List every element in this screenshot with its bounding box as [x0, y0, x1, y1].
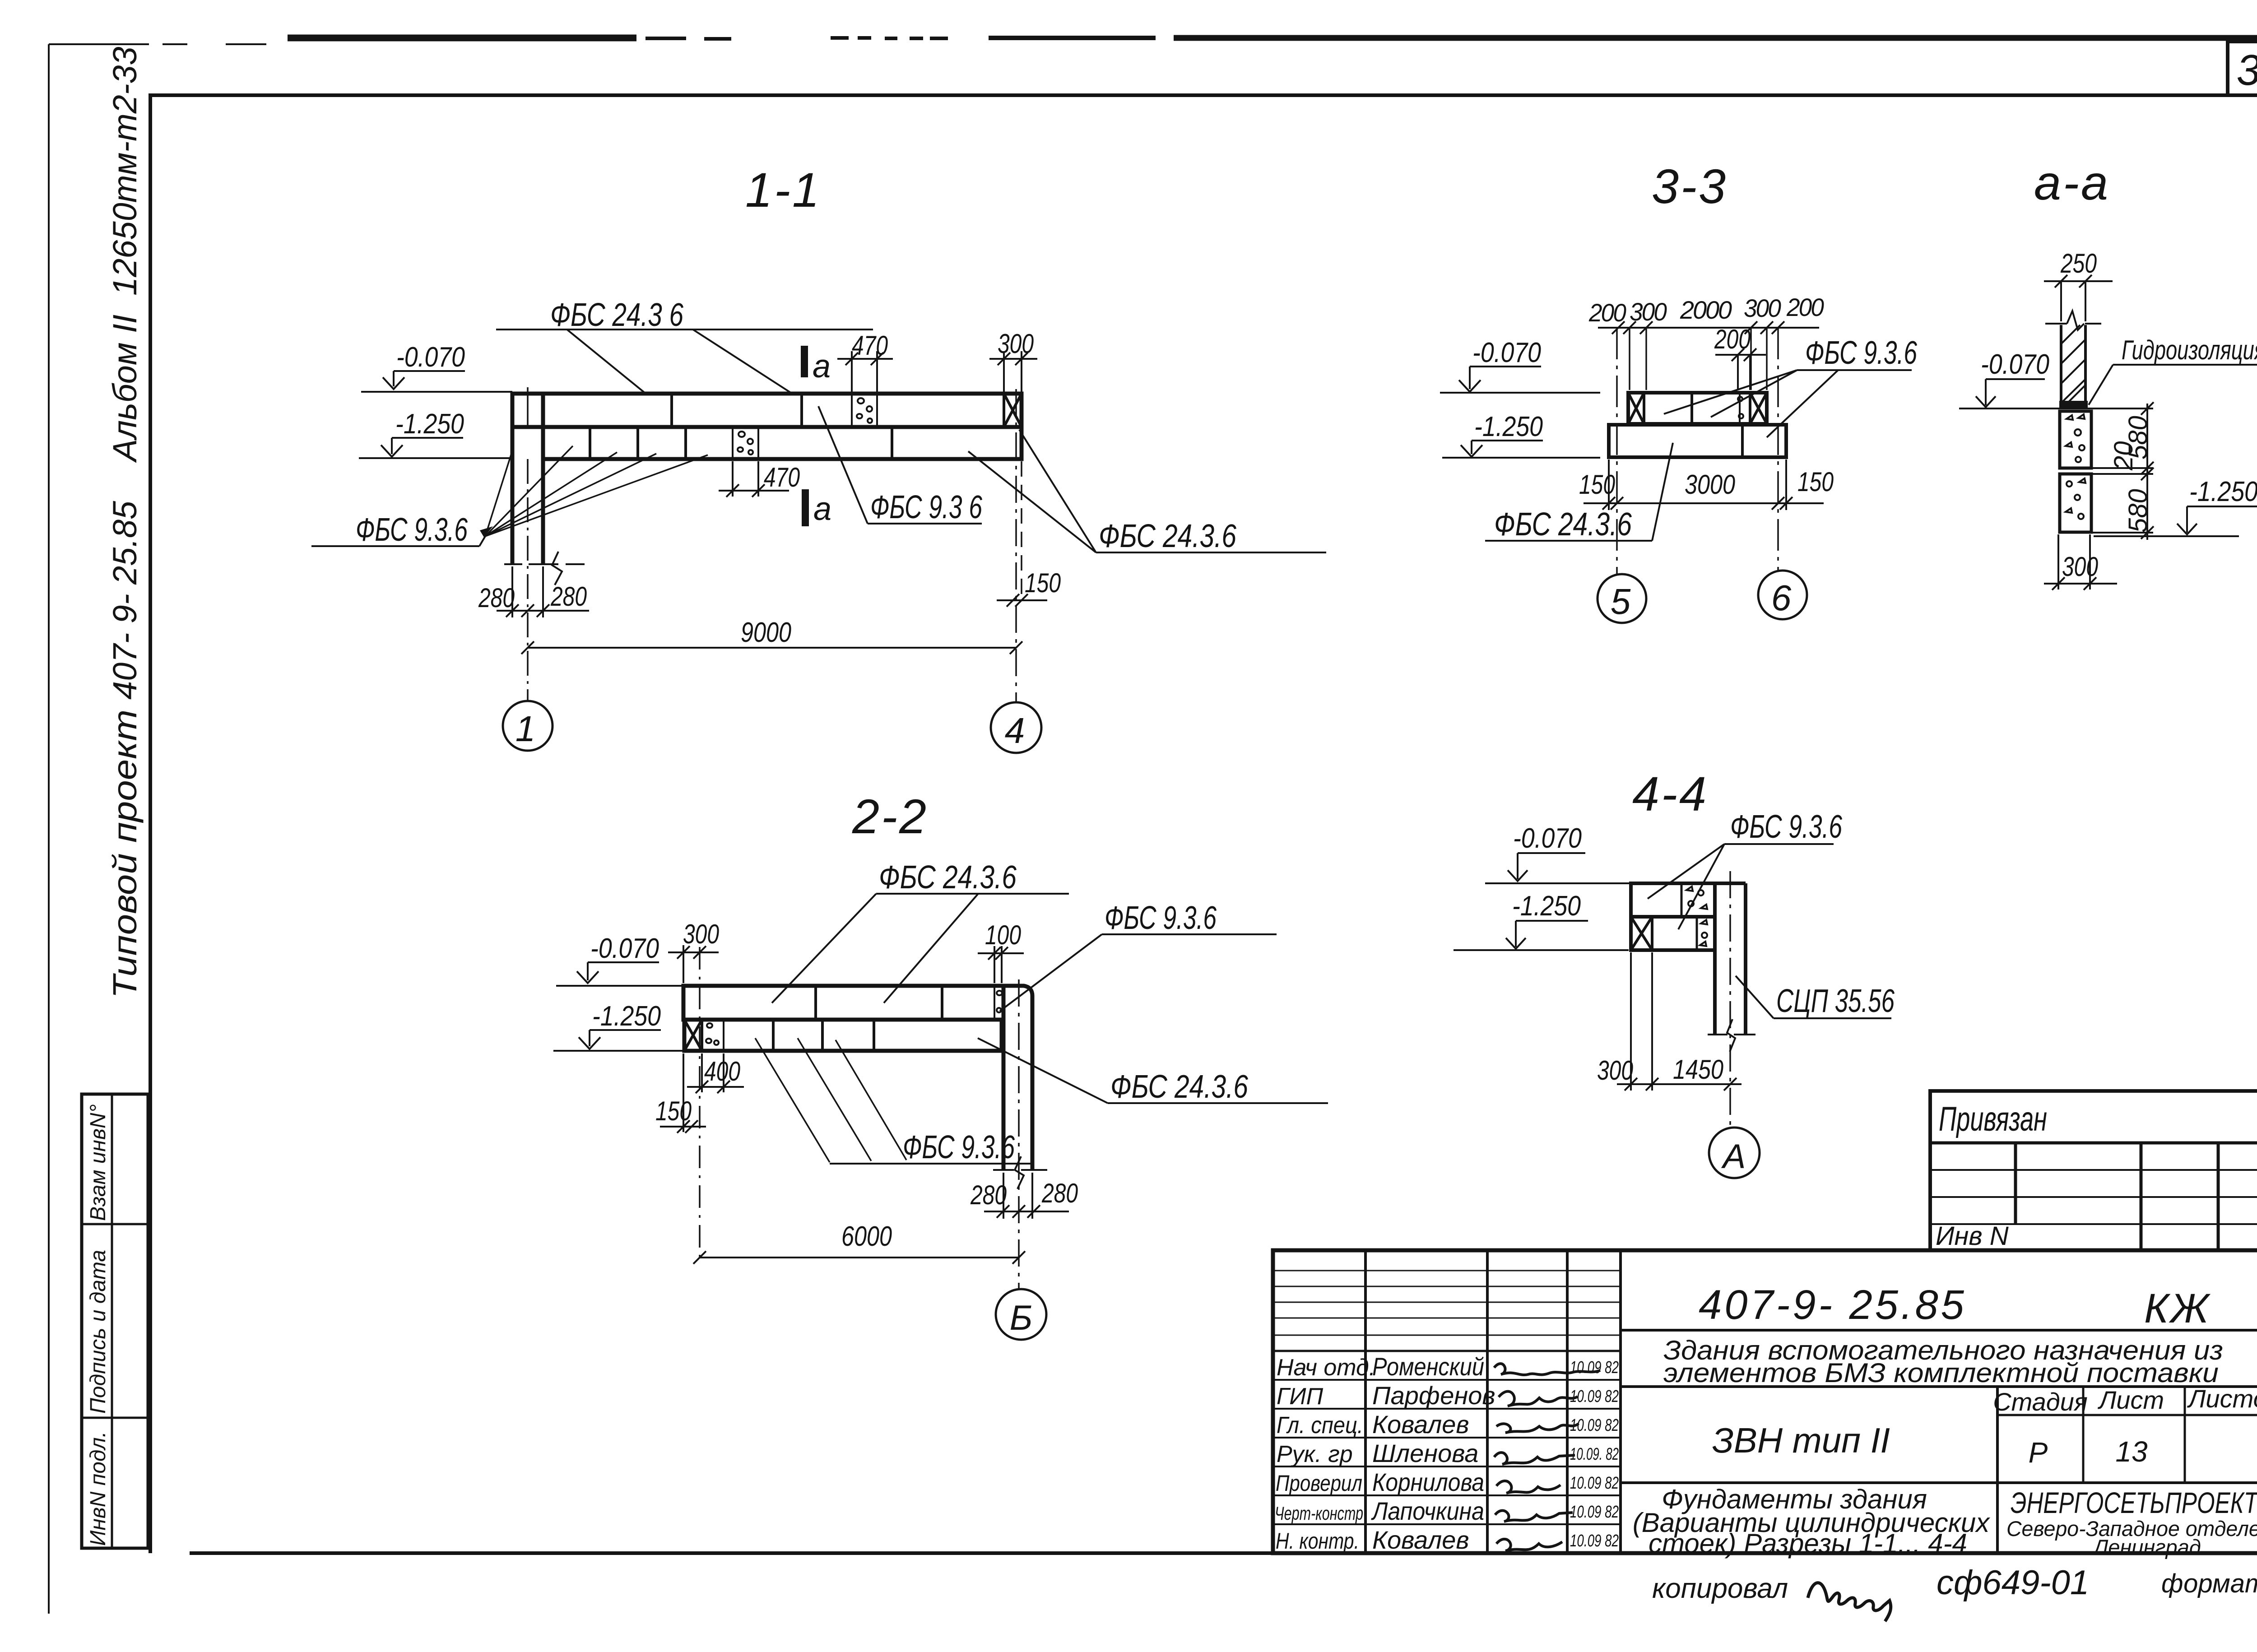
svg-text:200: 200: [1714, 324, 1751, 354]
section cut mark a (top): [804, 346, 831, 385]
divider under code: [1621, 1329, 2257, 1332]
svg-text:Стадия: Стадия: [1993, 1387, 2088, 1416]
svg-text:Роменский: Роменский: [1372, 1352, 1484, 1381]
dim 470 bottom: [719, 461, 800, 497]
svg-text:200: 200: [1588, 298, 1626, 327]
svg-text:Привязан: Привязан: [1939, 1100, 2047, 1138]
vertical divider: [1996, 1387, 1999, 1553]
grid circle А: [1709, 1128, 1760, 1178]
joint: [1681, 883, 1683, 917]
top row X end block: [1004, 394, 1022, 427]
grid circle 4: [991, 702, 1041, 753]
dim 300 top left: [668, 919, 719, 983]
svg-text:407-9- 25.85: 407-9- 25.85: [1699, 1282, 1967, 1328]
column at axis Б: [1002, 986, 1032, 1170]
paper left border: [48, 44, 50, 1614]
signature Аниц: [1808, 1583, 1891, 1621]
svg-text:1: 1: [515, 709, 536, 749]
label Гидроизоляция: [2089, 335, 2257, 405]
svg-text:300: 300: [1744, 294, 1781, 322]
divider: [1621, 1385, 2257, 1388]
svg-text:Инв N: Инв N: [1936, 1221, 2009, 1251]
svg-text:Ковалев: Ковалев: [1372, 1410, 1469, 1439]
wall above ground (hatched): [2045, 311, 2101, 403]
svg-text:СЦП 35.56: СЦП 35.56: [1776, 983, 1895, 1019]
axis line grid 4: [1015, 389, 1017, 702]
svg-text:Нач отд.: Нач отд.: [1277, 1355, 1375, 1381]
left stamp table: [82, 1094, 148, 1548]
top dims 200 300 2000 300 200: [1588, 293, 1824, 390]
svg-text:-1.250: -1.250: [1512, 891, 1581, 922]
svg-text:280: 280: [550, 581, 587, 612]
bottom row 400 mortar block: [723, 1020, 724, 1051]
svg-text:150: 150: [1797, 467, 1834, 497]
svg-text:Ленинград: Ленинград: [2092, 1535, 2201, 1559]
svg-text:150: 150: [1025, 568, 1061, 598]
svg-text:10.09 82: 10.09 82: [1570, 1358, 1619, 1377]
svg-text:-1.250: -1.250: [2189, 476, 2257, 507]
sheet number box: [2228, 42, 2257, 95]
svg-text:ФБС 9.3.6: ФБС 9.3.6: [903, 1129, 1015, 1165]
svg-text:12650тм-т2-33: 12650тм-т2-33: [106, 46, 144, 296]
svg-text:250: 250: [2060, 248, 2097, 278]
svg-text:элементов БМЗ комплектной пост: элементов БМЗ комплектной поставки: [1663, 1358, 2219, 1388]
elevation mark -0.070: [1485, 823, 1631, 883]
dim 470 top: [837, 330, 893, 392]
label ФБС 9.3.6: [1664, 335, 1918, 437]
svg-text:Гл. спец.: Гл. спец.: [1277, 1412, 1363, 1439]
block row upper: [1628, 393, 1767, 424]
svg-text:Гидроизоляция: Гидроизоляция: [2122, 335, 2257, 365]
label ФБС 24.3.6 lower right: [978, 1038, 1328, 1105]
elevation mark -1.250: [2094, 476, 2257, 536]
svg-text:формат А3: формат А3: [2161, 1569, 2257, 1598]
dim 100 top right: [978, 920, 1024, 983]
label ФБС 9.3.6 left with leader fan: [311, 446, 708, 548]
svg-text:ФБС 9.3 6: ФБС 9.3 6: [870, 489, 983, 525]
svg-text:копировал: копировал: [1652, 1573, 1788, 1604]
svg-text:4: 4: [1005, 710, 1025, 751]
elevation mark -1.250: [359, 408, 511, 458]
dim 150 left: [655, 1053, 706, 1133]
label ФБС 24.3 6 top: [496, 297, 873, 394]
dim 200 small: [1714, 324, 1766, 390]
axis line left (300 mark): [699, 947, 701, 1259]
dots in 470 block: [857, 398, 872, 423]
title block signature columns: [1365, 1250, 1621, 1553]
bottom row joints: [590, 427, 892, 459]
dims 300 1450: [1597, 952, 1742, 1091]
title block outer box: [1273, 1250, 2257, 1553]
svg-text:Корнилова: Корнилова: [1372, 1468, 1484, 1496]
svg-text:-1.250: -1.250: [1474, 411, 1543, 442]
svg-text:ФБС 24.3.6: ФБС 24.3.6: [1494, 506, 1632, 543]
svg-text:ФБС 24.3 6: ФБС 24.3 6: [550, 297, 684, 333]
grid circle 6: [1758, 571, 1807, 619]
label ФБС 24.3.6 top: [772, 859, 1069, 1003]
svg-text:6000: 6000: [841, 1221, 892, 1252]
svg-text:Шленова: Шленова: [1372, 1439, 1478, 1467]
svg-text:280: 280: [478, 583, 515, 613]
svg-text:Типовой проект: Типовой проект: [106, 710, 144, 998]
dim 150 at axis 4: [997, 461, 1061, 607]
svg-text:Рук. гр: Рук. гр: [1277, 1441, 1353, 1467]
column СЦП: [1715, 883, 1746, 1035]
svg-text:-0.070: -0.070: [1472, 337, 1541, 368]
svg-text:-0.070: -0.070: [396, 342, 465, 373]
svg-text:Листов: Листов: [2187, 1384, 2257, 1413]
svg-text:-1.250: -1.250: [592, 1001, 661, 1032]
label ФБС 24.3.6: [1485, 443, 1673, 543]
svg-text:А: А: [1721, 1137, 1746, 1176]
svg-text:ФБС 24.3.6: ФБС 24.3.6: [1099, 518, 1237, 554]
dim 9000: [521, 617, 1022, 654]
svg-text:9000: 9000: [741, 617, 791, 648]
dots in sliver: [997, 991, 1002, 1012]
svg-text:a: a: [813, 348, 831, 385]
svg-text:10.09. 82: 10.09. 82: [1570, 1445, 1619, 1464]
signature row lines: [1273, 1380, 1621, 1524]
svg-text:10.09 82: 10.09 82: [1570, 1503, 1619, 1522]
svg-text:5: 5: [1611, 581, 1631, 622]
svg-text:ИнвN подл.: ИнвN подл.: [86, 1431, 110, 1546]
joint: [1690, 393, 1693, 424]
dim 250: [2044, 248, 2113, 321]
dots row1 right block: [1686, 886, 1707, 909]
column break: [993, 1169, 1047, 1171]
top row joints: [672, 394, 802, 427]
svg-text:а-а: а-а: [2034, 155, 2110, 210]
svg-text:3000: 3000: [1685, 469, 1735, 500]
block row 2: [1631, 917, 1715, 950]
wall 1-1 top row: [512, 394, 1022, 427]
bottom row joints: [773, 1020, 874, 1051]
dim 280 280 at axis 1: [478, 566, 589, 617]
svg-text:ЭНЕРГОСЕТЬПРОЕКТ: ЭНЕРГОСЕТЬПРОЕКТ: [2011, 1486, 2257, 1519]
dots in bottom 470 block: [738, 432, 753, 455]
svg-text:1-1: 1-1: [745, 162, 821, 217]
grid circle 1: [503, 701, 553, 751]
waterproofing band: [2059, 401, 2088, 408]
bottom dims 150 3000 150: [1579, 459, 1834, 510]
axis А line: [1729, 871, 1731, 1128]
svg-text:3-3: 3-3: [1652, 159, 1728, 213]
top row mortar joint 470 block: [852, 394, 877, 427]
svg-text:280: 280: [970, 1180, 1007, 1210]
divider: [1621, 1481, 2257, 1484]
svg-text:200: 200: [1786, 293, 1824, 321]
svg-text:2000: 2000: [1680, 296, 1732, 324]
left X block: [1628, 393, 1644, 424]
svg-text:стоек) Разрезы 1-1... 4-4: стоек) Разрезы 1-1... 4-4: [1649, 1528, 1967, 1559]
dots row2 right: [1700, 920, 1707, 946]
elevation mark -0.070: [1959, 349, 2132, 408]
top row 100 sliver block: [994, 986, 995, 1020]
svg-text:Ковалев: Ковалев: [1372, 1526, 1469, 1554]
svg-text:-0.070: -0.070: [590, 933, 659, 964]
svg-text:Парфенов: Парфенов: [1372, 1381, 1495, 1410]
svg-text:100: 100: [985, 920, 1021, 950]
right X block: [1750, 393, 1767, 424]
svg-text:Черт-констр: Черт-констр: [1275, 1503, 1363, 1524]
svg-text:400: 400: [704, 1056, 740, 1086]
wall 2-2 top row: [683, 986, 1003, 1020]
dim 300 top right: [989, 329, 1037, 392]
svg-text:ГИП: ГИП: [1277, 1383, 1323, 1410]
axis line grid 6: [1777, 328, 1779, 570]
axis line grid 5: [1616, 328, 1618, 574]
Привязан table: [1930, 1091, 2257, 1250]
svg-text:580: 580: [2123, 489, 2153, 533]
dim 400: [687, 1053, 744, 1093]
elevation mark -1.250: [1454, 891, 1629, 950]
svg-text:ФБС 9.3.6: ФБС 9.3.6: [1805, 335, 1918, 371]
svg-text:10.09 82: 10.09 82: [1570, 1531, 1619, 1550]
svg-text:10.09 82: 10.09 82: [1570, 1416, 1619, 1435]
signature squiggles: [1494, 1364, 1600, 1375]
label ФБС 9.3.6: [1648, 809, 1843, 929]
elevation mark -0.070: [1440, 337, 1600, 393]
column break: [1708, 1034, 1755, 1035]
svg-text:150: 150: [655, 1096, 692, 1126]
svg-text:300: 300: [683, 919, 719, 949]
dots in 400 block: [706, 1023, 719, 1045]
svg-text:ФБС 24.3.6: ФБС 24.3.6: [1110, 1069, 1249, 1105]
svg-text:407- 9- 25.85: 407- 9- 25.85: [106, 501, 144, 700]
section cut mark a (bottom): [805, 489, 831, 527]
svg-text:-0.070: -0.070: [1513, 823, 1582, 854]
pier break line: [504, 563, 585, 565]
elevation mark -0.070: [361, 342, 512, 392]
svg-text:Лист: Лист: [2098, 1386, 2164, 1414]
svg-text:ФБС 9.3.6: ФБС 9.3.6: [1730, 809, 1843, 845]
svg-text:-1.250: -1.250: [395, 408, 464, 440]
axis line grid 1: [527, 387, 529, 427]
svg-text:ФБС 24.3.6: ФБС 24.3.6: [879, 859, 1017, 896]
svg-text:ФБС 9.3.6: ФБС 9.3.6: [1105, 900, 1217, 936]
wall 2-2 bottom row: [684, 1020, 1002, 1051]
wall 1-1 bottom row: [543, 427, 1022, 459]
narrow empty rows: [1273, 1271, 1621, 1335]
elevation mark -1.250: [553, 1001, 683, 1051]
axis Б line: [1018, 979, 1020, 1289]
svg-text:13: 13: [2115, 1435, 2148, 1468]
paper top edge thick scan line: [288, 35, 636, 42]
label СЦП 35.56: [1736, 976, 1895, 1019]
svg-text:1450: 1450: [1673, 1054, 1723, 1085]
svg-text:сф649-01: сф649-01: [1937, 1564, 2089, 1602]
svg-text:6: 6: [1771, 578, 1792, 618]
block row 1: [1631, 883, 1715, 917]
elevation mark -1.250: [1442, 411, 1600, 458]
svg-text:Лапочкина: Лапочкина: [1371, 1497, 1484, 1525]
svg-text:4-4: 4-4: [1632, 766, 1708, 821]
label ФБС 9.3.6 bottom with leaders: [755, 1038, 1034, 1165]
dim 280 280 at axis Б: [970, 1173, 1078, 1219]
mortar sliver with dots: [1738, 393, 1743, 424]
top row joints: [816, 986, 942, 1020]
bottom row mortar joint 470 block: [733, 427, 758, 459]
svg-text:20: 20: [2109, 441, 2138, 471]
svg-text:470: 470: [852, 330, 888, 361]
svg-text:280: 280: [1041, 1178, 1078, 1208]
svg-text:ФБС 9.3.6: ФБС 9.3.6: [356, 512, 468, 548]
joint row 2: [1696, 917, 1698, 950]
label ФБС 9.3.6 upper right: [1000, 900, 1277, 1011]
svg-text:2-2: 2-2: [852, 789, 928, 844]
svg-text:10.09 82: 10.09 82: [1570, 1474, 1619, 1493]
grid circle 5: [1598, 574, 1646, 623]
svg-text:Взам инвN°: Взам инвN°: [86, 1104, 110, 1221]
slab joint: [1741, 425, 1744, 457]
dim 300: [2044, 534, 2117, 590]
svg-text:Проверил: Проверил: [1276, 1471, 1362, 1496]
vertical dim 580 20 580: [2091, 402, 2154, 540]
label ФБС 9.3 6 middle: [818, 406, 983, 525]
svg-text:32: 32: [2237, 46, 2257, 94]
concrete block upper: [2060, 411, 2091, 468]
svg-text:Альбом II: Альбом II: [106, 315, 144, 463]
elevation mark -0.070: [556, 933, 683, 986]
svg-text:300: 300: [1597, 1055, 1633, 1086]
svg-text:Р: Р: [2029, 1436, 2048, 1469]
label ФБС 24.3.6 right: [968, 430, 1326, 554]
svg-text:Н. контр.: Н. контр.: [1276, 1528, 1359, 1554]
foundation slab: [1609, 425, 1786, 457]
svg-text:КЖ: КЖ: [2144, 1285, 2211, 1332]
svg-text:Подпись и дата: Подпись и дата: [86, 1250, 110, 1414]
bottom row X block: [684, 1020, 702, 1051]
dim 6000: [693, 1221, 1025, 1264]
wall top break: [2045, 311, 2101, 330]
grid circle Б: [996, 1289, 1046, 1340]
svg-text:300: 300: [2062, 552, 2098, 582]
svg-text:ЗВН тип II: ЗВН тип II: [1712, 1420, 1890, 1460]
X block row 2: [1631, 917, 1652, 950]
wall pier at axis 1: [512, 394, 543, 564]
svg-text:-0.070: -0.070: [1981, 349, 2049, 380]
svg-text:Б: Б: [1010, 1298, 1033, 1337]
svg-text:10.09 82: 10.09 82: [1570, 1387, 1619, 1406]
svg-text:a: a: [813, 491, 831, 527]
concrete block lower: [2060, 474, 2091, 532]
svg-text:470: 470: [764, 462, 800, 492]
